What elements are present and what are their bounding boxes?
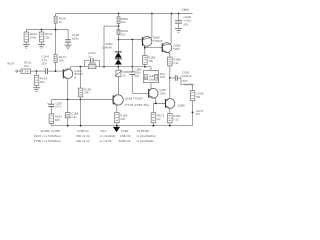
capacitor C1AB supply decoupling [175, 14, 192, 29]
note text row 2 [34, 134, 156, 138]
svg-text:10uH: 10uH [149, 78, 155, 81]
svg-text:2.2u: 2.2u [71, 115, 77, 119]
note text row 1 [41, 129, 150, 133]
node junction input shunt [36, 70, 38, 72]
wire feedback column down [103, 26, 105, 67]
svg-text:100: 100 [148, 59, 153, 63]
resistor R1A2 [24, 30, 37, 45]
wire preset to Q2 [117, 77, 119, 96]
wire bottom rail [51, 125, 192, 127]
node junctions on bottom rail [67, 125, 171, 127]
svg-text:5200: 5200 [173, 47, 180, 51]
svg-text:50V: 50V [184, 22, 189, 26]
node OUT label [196, 109, 204, 116]
svg-text:2k2: 2k2 [24, 64, 29, 68]
resistor LS1B load [190, 91, 203, 126]
svg-text:100k: 100k [30, 35, 37, 39]
svg-text:1k: 1k [59, 20, 63, 24]
inductor L1B9 output network [144, 67, 166, 89]
svg-text:B: B [74, 76, 76, 80]
resistor R1B1 [49, 114, 62, 126]
svg-text:2k2: 2k2 [121, 32, 126, 36]
wire VAS row y=66.2 [70, 66, 151, 68]
capacitor C1B8 [65, 100, 78, 126]
capacitor C1B9 output [175, 70, 192, 90]
svg-text:22k: 22k [45, 35, 50, 39]
node junction output [169, 77, 171, 79]
resistor R1B6 [143, 55, 156, 66]
svg-text:+47u: +47u [55, 105, 62, 109]
wire Q1B7 base [132, 92, 148, 94]
svg-text:680: 680 [55, 118, 60, 122]
svg-text:2F1B5, 2Y1B5: 2F1B5, 2Y1B5 [41, 129, 61, 133]
svg-text:Q1B8: Q1B8 [178, 104, 186, 108]
svg-text:xx yrkxdfwRxk: xx yrkxdfwRxk [136, 134, 156, 138]
svg-text:C1B8 2u: C1B8 2u [77, 129, 89, 133]
svg-text:0.22: 0.22 [173, 117, 179, 121]
wire output branch [170, 77, 175, 79]
resistor R1B4 preset [115, 67, 130, 78]
svg-text:OUT1A: OUT1A [184, 83, 195, 87]
svg-text:(TT05 2SB5-BG): (TT05 2SB5-BG) [125, 103, 150, 107]
svg-text:7Y5B x xx 5x5xBxxx: 7Y5B x xx 5x5xBxxx [34, 139, 62, 143]
svg-text:1n: 1n [88, 55, 92, 59]
wire branch to feedback column [104, 25, 119, 27]
svg-text:100n: 100n [72, 37, 79, 41]
diode D1B3 label [102, 42, 113, 49]
svg-text:22k: 22k [40, 80, 45, 84]
svg-text:+36V: +36V [181, 8, 190, 12]
ground chassis symbol [113, 127, 120, 132]
resistor R1B2f feedback column [78, 67, 91, 126]
svg-text:10k: 10k [84, 91, 89, 95]
wire input [18, 70, 21, 72]
svg-text:8R: 8R [197, 95, 201, 99]
svg-text:xx yrkxdfwR: xx yrkxdfwR [99, 134, 116, 138]
svg-text:1N4148: 1N4148 [102, 45, 112, 49]
svg-text:10k: 10k [59, 59, 64, 63]
svg-text:1R: 1R [157, 117, 161, 121]
diode D1 bias [115, 52, 122, 58]
capacitor C1A4 input coupling [42, 55, 50, 74]
resistor R1B9 [168, 108, 181, 125]
transistor Q1B5 driver [142, 14, 163, 48]
svg-text:R1A9: R1A9 [89, 61, 96, 65]
node junction driver base [118, 39, 120, 41]
svg-text:500 uF ±2: 500 uF ±2 [76, 134, 90, 138]
svg-text:63V: 63V [135, 74, 140, 78]
node junction dots on top rail [118, 13, 180, 15]
diode D2 bias [115, 58, 122, 67]
svg-text:2SB OF: 2SB OF [120, 134, 131, 138]
resistor R1A1 series [21, 61, 32, 74]
svg-text:+2200uF: +2200uF [180, 74, 191, 78]
wire cap to base [48, 70, 64, 72]
node junction bias divider [118, 25, 120, 27]
capacitor C1B7 feedback [47, 100, 62, 114]
node junction out [192, 112, 194, 114]
svg-text:0.22: 0.22 [173, 61, 179, 65]
resistor R1A6 [54, 14, 66, 71]
ground under R1A3 [33, 88, 40, 92]
resistor R1B3 [117, 29, 128, 52]
wire to Q1B6 base [145, 47, 162, 49]
wire bias row y=29.5 [26, 29, 68, 31]
ground under C1AB [175, 29, 182, 33]
transistor Q1AB output VAS [113, 95, 150, 107]
svg-text:xx yrkxdfwRx: xx yrkxdfwRx [136, 139, 154, 143]
wire Q1 collector up [69, 67, 71, 69]
wire Q1 emitter down [67, 79, 69, 100]
svg-text:220: 220 [120, 117, 125, 121]
note text row 3 [34, 139, 155, 143]
wire input to cap [31, 70, 46, 72]
svg-text:500 uF ±2: 500 uF ±2 [76, 139, 90, 143]
resistor R1C3 [151, 103, 164, 125]
ground under R1A4 [38, 44, 45, 48]
svg-text:4R: 4R [196, 112, 200, 116]
resistor R1A9 in loop [88, 61, 96, 69]
svg-text:Q1AB TT5200: Q1AB TT5200 [125, 96, 143, 100]
capacitor C1A9 parallel loop [85, 51, 100, 67]
capacitor C1A6 [65, 30, 79, 45]
transistor Q1B8 output lower [165, 98, 185, 108]
node junctions on VAS row [80, 66, 146, 68]
node junction darlington [144, 47, 146, 49]
svg-text:2SC5 x xx 5x5xBxxx: 2SC5 x xx 5x5xBxxx [34, 134, 62, 138]
ground under R1A2 [23, 44, 30, 48]
wire to driver base [119, 39, 144, 41]
wire H2 base line [51, 99, 113, 101]
svg-text:TT5200: TT5200 [153, 39, 163, 43]
svg-text:R1C: R1C [101, 129, 108, 133]
resistor R1A7 [54, 55, 66, 63]
wire top supply rail [56, 13, 193, 15]
resistor R1B5 Q2 emitter [115, 105, 128, 126]
svg-text:IN1A: IN1A [7, 62, 15, 66]
svg-text:C1BF: C1BF [121, 129, 129, 133]
node junction bootstrap column [131, 39, 133, 41]
ground under C1A6 [65, 45, 72, 49]
node junctions on H2 [67, 99, 82, 101]
svg-text:25V: 25V [42, 62, 47, 66]
svg-text:5x5B OF: 5x5B OF [119, 139, 131, 143]
resistor R1B8 emitter [168, 54, 181, 99]
wire Q1B7 emitter [153, 99, 165, 104]
resistor R1A3 shunt [34, 71, 47, 87]
svg-text:R1C: R1C [160, 72, 165, 76]
node junction base [55, 70, 57, 72]
transistor Q1B7 output upper [148, 88, 167, 99]
node junctions on bias row [41, 29, 57, 31]
resistor R1A4 [39, 30, 52, 45]
svg-text:P1AB 8R: P1AB 8R [137, 129, 150, 133]
wire Q1B5 emitter [144, 47, 146, 55]
svg-text:xx yrkxdf: xx yrkxdf [99, 139, 111, 143]
svg-text:2k2: 2k2 [121, 20, 126, 24]
transistor Q1B6 driver [162, 14, 181, 54]
node junction Q4 base [155, 103, 157, 105]
transistor Q1A8 input [63, 69, 83, 80]
capacitor C1B5 bootstrap column [130, 40, 142, 93]
svg-text:10R: 10R [160, 75, 165, 79]
svg-text:1943: 1943 [159, 92, 166, 96]
resistor R1B2 from rail [117, 14, 128, 30]
terminal input pin [16, 70, 18, 72]
